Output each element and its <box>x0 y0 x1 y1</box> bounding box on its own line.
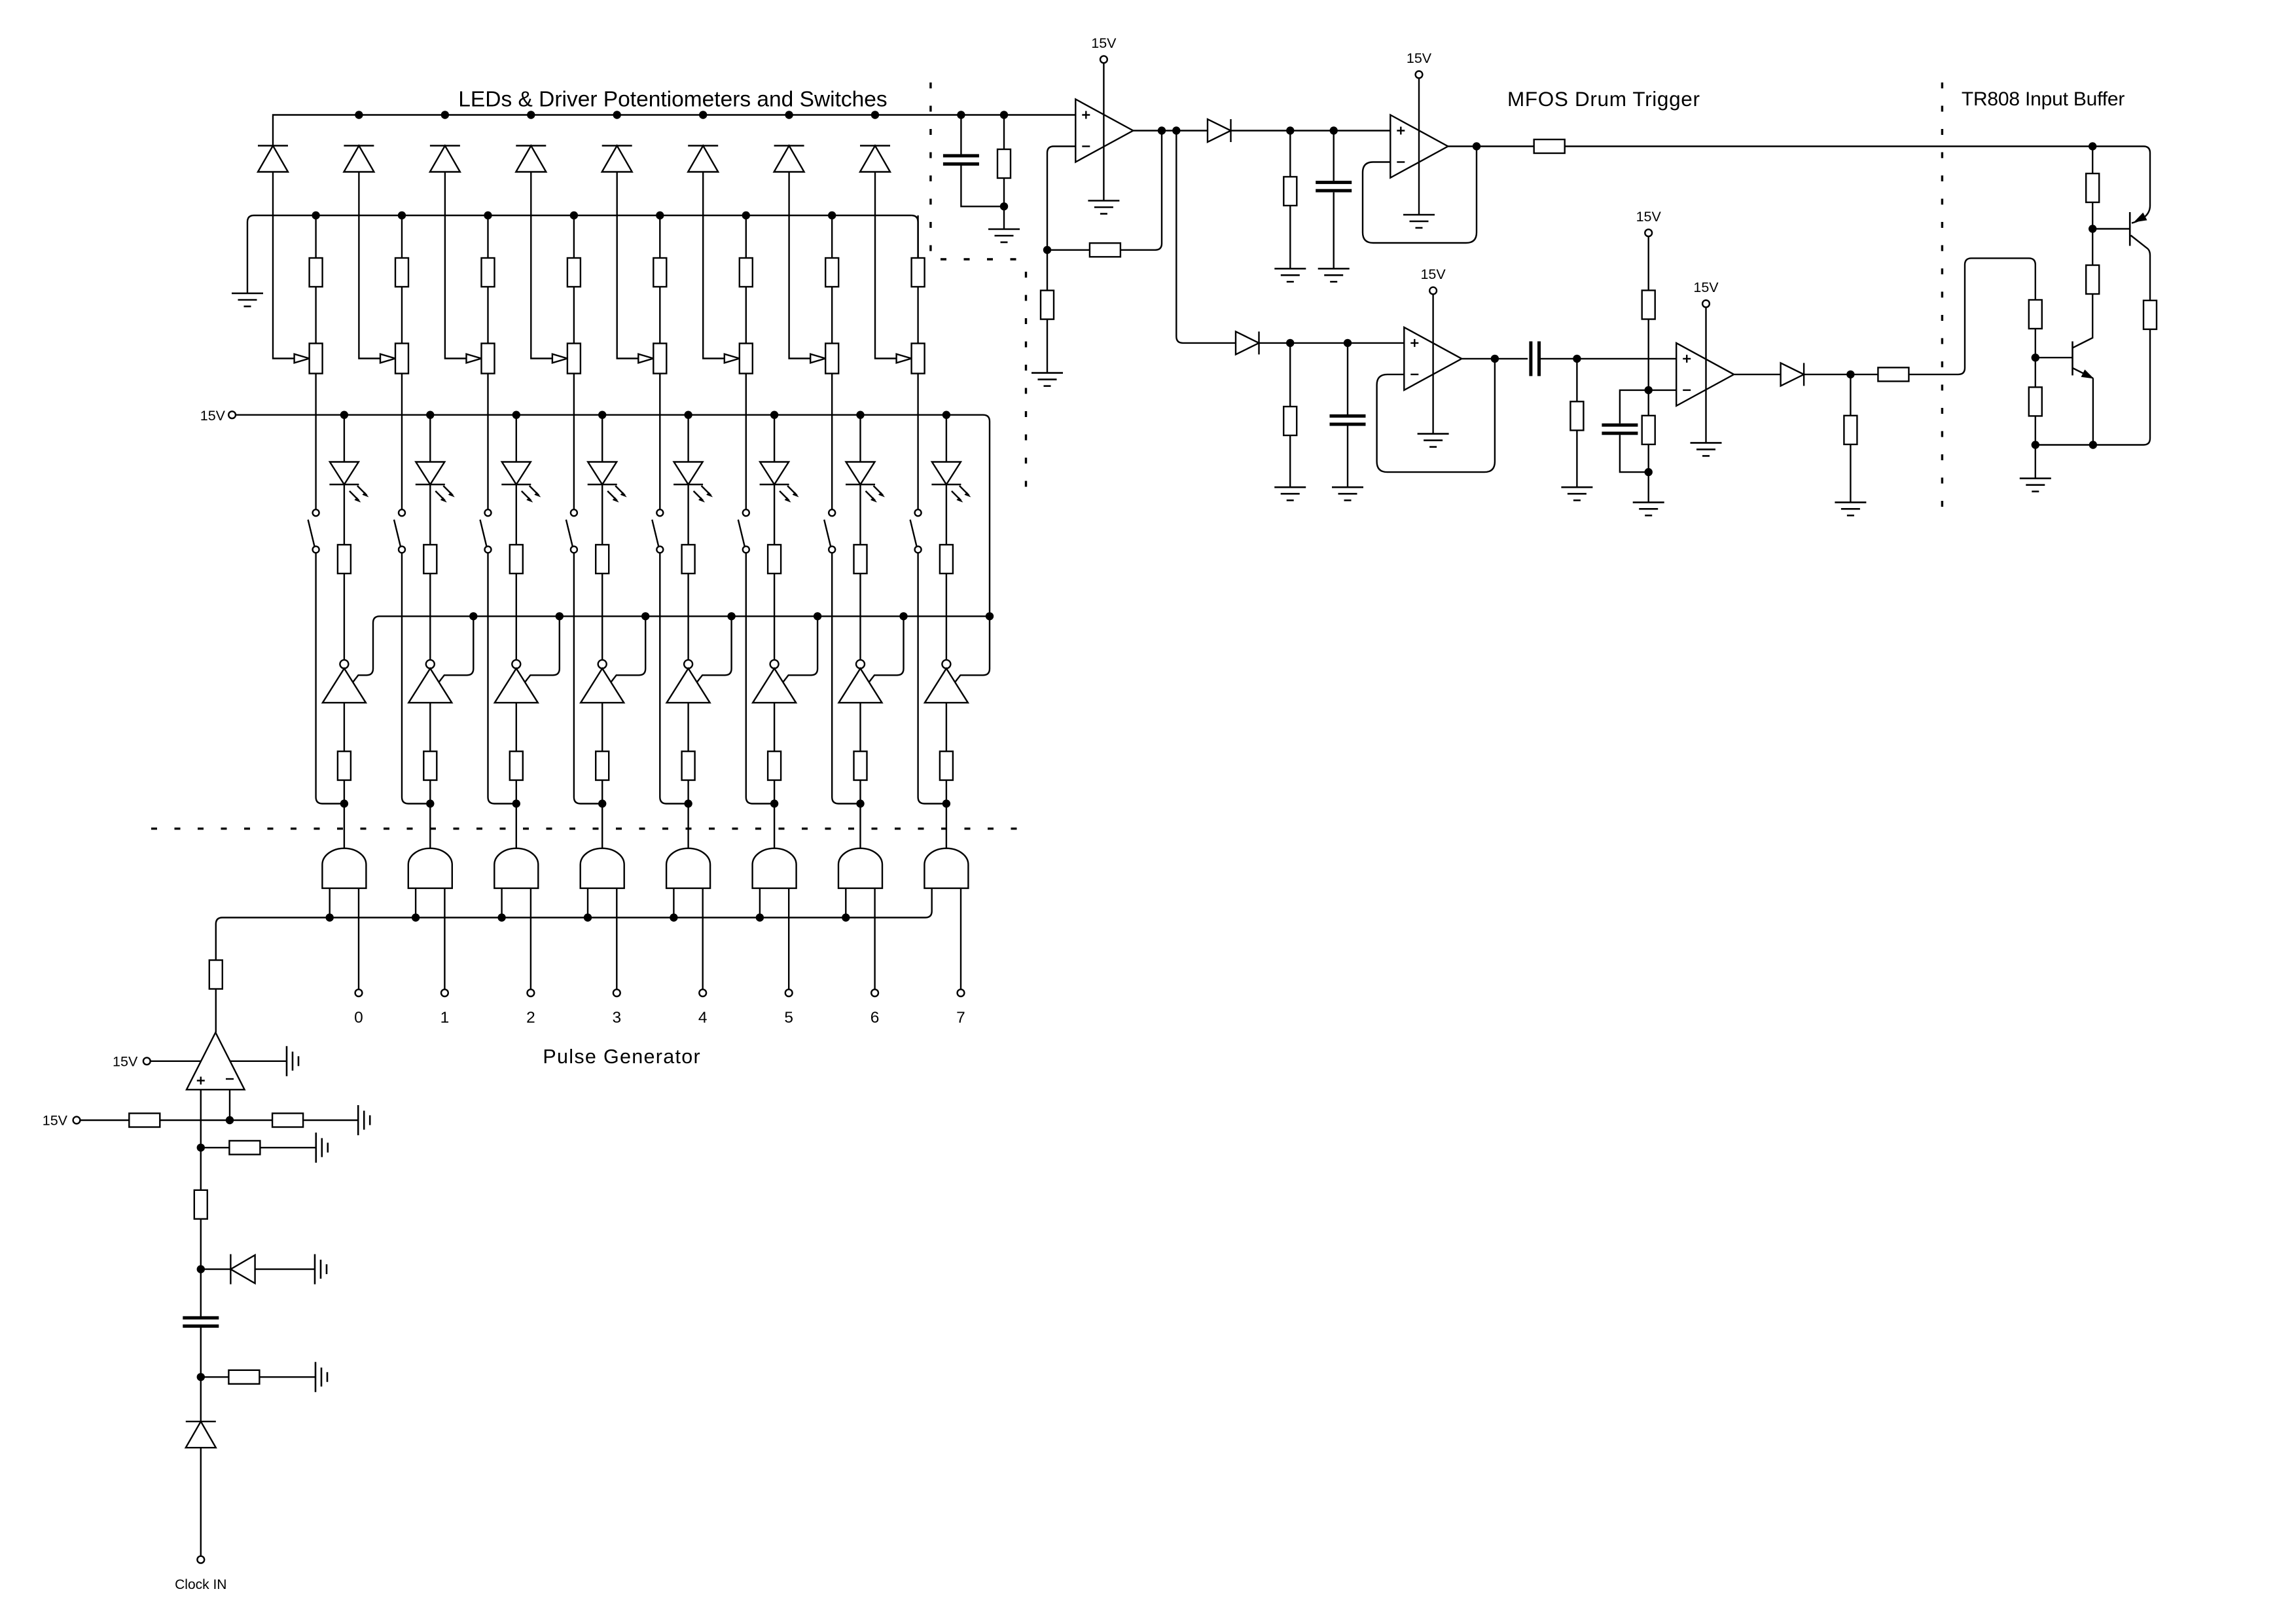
resistor R16 <box>1289 343 1291 407</box>
ground: R14 <box>1274 268 1306 282</box>
wire: diode D7 anode down to pot wiper <box>789 172 811 359</box>
terminal: step input 3 <box>613 989 620 996</box>
terminal: 15V threshold <box>73 1117 81 1124</box>
diode D1 <box>258 146 288 172</box>
terminal: 15V U3 <box>1416 71 1423 79</box>
svg-text:15V: 15V <box>43 1113 68 1129</box>
pot wiper arrow col 4 <box>552 354 567 363</box>
resistor R8c (inverter input) <box>946 702 947 751</box>
terminal: step input 0 <box>355 989 363 996</box>
ground: R16 <box>1274 487 1306 500</box>
wire: pot P1 bottom to switch <box>315 374 316 510</box>
node: column 1 drive node <box>340 799 348 807</box>
wire: switch S1 to AND gate output node <box>316 553 344 803</box>
wire: pot P7 bottom to switch <box>831 374 833 510</box>
wire: U2 output <box>1133 130 1208 131</box>
wire: drive node to AND gate G4 <box>601 804 603 848</box>
wire: diode D2 anode down to pot wiper <box>359 172 380 359</box>
node: bus2 junction col 2 <box>398 211 406 219</box>
node: column 4 drive node <box>598 799 606 807</box>
wire: second bus (pot tops) <box>254 215 912 216</box>
wire: gate G6 left input <box>759 888 761 918</box>
node: U4 output node <box>1491 355 1499 363</box>
wire: bus2 right end into column 8 resistor <box>912 215 918 258</box>
switch S2 <box>394 509 405 553</box>
node: 15V bus junction col 8 <box>942 411 950 419</box>
ground: U4 supply <box>1418 434 1449 447</box>
svg-text:6: 6 <box>870 1009 880 1027</box>
svg-text:Pulse Generator: Pulse Generator <box>543 1046 701 1068</box>
wire: 15V bus <box>236 414 983 416</box>
wire: diode D6 anode down to pot wiper <box>703 172 725 359</box>
switch S8 <box>910 509 922 553</box>
wire: lower branch drop <box>1176 131 1236 343</box>
resistor R1b (LED to inverter) <box>344 484 345 545</box>
node: pulse bus junction gate 6 <box>756 913 764 921</box>
AND gate G2 <box>408 848 452 888</box>
ground: emitter bus <box>2035 445 2036 479</box>
LED L7 <box>859 415 861 462</box>
pot wiper arrow col 6 <box>725 354 740 363</box>
resistor R19 (divider bottom) <box>1647 390 1649 416</box>
wire: pot P2 bottom to switch <box>401 374 403 510</box>
op-amp U4 (comparator 2) <box>1404 327 1462 390</box>
ground: R35 <box>315 1362 327 1392</box>
svg-text:0: 0 <box>354 1009 363 1027</box>
inverter buffer U8 <box>925 660 968 702</box>
ground: C2 <box>1318 268 1350 282</box>
pot wiper arrow col 5 <box>638 354 653 363</box>
node: pulse bus junction gate 3 <box>497 913 505 921</box>
terminal: 15V op-amp supply <box>143 1057 151 1065</box>
potentiometer P8 <box>912 344 925 374</box>
node: Q1 base chain top <box>2089 142 2096 150</box>
wire: U5 output <box>1734 374 1781 375</box>
svg-text:5: 5 <box>784 1009 793 1027</box>
node: Q2 base node <box>2032 354 2039 361</box>
wire: rail drop into inverter 4 <box>611 616 646 683</box>
resistor R20 (load) <box>1850 374 1851 416</box>
wire: gate G2 left input <box>415 888 416 918</box>
capacitor C3 <box>1347 343 1348 414</box>
AND gate G7 <box>838 848 882 888</box>
node: column 5 drive node <box>684 799 692 807</box>
resistor R4b (LED to inverter) <box>601 484 603 545</box>
resistor R7b (LED to inverter) <box>859 484 861 545</box>
node: top bus junction col 6 <box>699 111 707 119</box>
terminal: 15V U2 <box>1100 56 1107 63</box>
node: - input node <box>226 1116 234 1124</box>
node: top bus junction col 4 <box>527 111 535 119</box>
wire: gate G2 right input to terminal 1 <box>444 888 445 990</box>
node: rail junction col 7 <box>899 612 907 620</box>
node: timing node B <box>197 1373 205 1381</box>
terminal: step input 2 <box>528 989 535 996</box>
node: output node <box>1846 371 1854 378</box>
node: + input node <box>197 1144 205 1152</box>
pot wiper arrow col 3 <box>467 354 482 363</box>
node: U2 feedback node <box>1043 246 1051 254</box>
svg-text:Clock IN: Clock IN <box>175 1577 226 1592</box>
wire: pot P5 bottom to switch <box>659 374 660 510</box>
wire: gate G8 left input <box>931 888 932 911</box>
resistor R6a (bus2 to pot) <box>745 215 747 258</box>
node: top bus junction col 2 <box>355 111 363 119</box>
resistor R5c (inverter input) <box>687 702 689 751</box>
ground: filter <box>988 229 1020 242</box>
wire: gate G5 left input <box>673 888 674 918</box>
inverter buffer U7 <box>839 660 882 702</box>
AND gate G3 <box>494 848 538 888</box>
wire: drive node to AND gate G5 <box>687 804 689 848</box>
node: detector node 1 <box>1286 126 1294 134</box>
resistor R22 (base top) <box>2092 147 2093 174</box>
node: U5 - input node <box>1645 386 1653 394</box>
node: timing node A <box>197 1265 205 1273</box>
resistor R7c (inverter input) <box>859 702 861 751</box>
ground: R17 <box>1561 487 1592 500</box>
terminal: 15V U5 <box>1702 301 1710 308</box>
diode D12 (lower branch) <box>1236 331 1259 354</box>
wire: switch S4 to AND gate output node <box>574 553 602 803</box>
node: pulse shaping node <box>1573 355 1581 363</box>
diode D10 (clock input, pointing up) <box>200 1377 202 1421</box>
AND gate G5 <box>666 848 710 888</box>
wire: gate G4 left input <box>587 888 588 918</box>
wire: U4 feedback loop <box>1377 359 1495 472</box>
resistor R1a (bus2 to pot) <box>315 215 316 258</box>
LED L2 <box>429 415 431 462</box>
resistor R2c (inverter input) <box>429 702 431 751</box>
node: pulse bus junction gate 1 <box>326 913 334 921</box>
wire: gate G3 left input <box>501 888 502 918</box>
svg-text:15V: 15V <box>1636 209 1662 225</box>
ground: R33 <box>316 1133 328 1163</box>
node: top bus junction col 7 <box>785 111 793 119</box>
resistor R4c (inverter input) <box>601 702 603 751</box>
potentiometer P2 <box>395 344 408 374</box>
node: 15V bus junction col 2 <box>426 411 434 419</box>
resistor R8b (LED to inverter) <box>946 484 947 545</box>
ground: D9 <box>315 1254 327 1285</box>
pot wiper arrow col 7 <box>810 354 825 363</box>
LED L8 <box>946 415 947 462</box>
dashed boundary: LED section right (lower) <box>1025 272 1027 490</box>
svg-text:4: 4 <box>698 1009 708 1027</box>
resistor R35 (node B to ground) <box>201 1376 229 1377</box>
node: 15V bus junction col 1 <box>340 411 348 419</box>
AND gate G6 <box>753 848 797 888</box>
op-amp U3 (comparator 1) <box>1390 115 1448 178</box>
wire: rail drop into inverter 2 <box>439 616 474 683</box>
wire: switch S6 to AND gate output node <box>746 553 774 803</box>
LED L1 <box>344 415 345 462</box>
node: bus2 junction col 6 <box>742 211 750 219</box>
wire: gate G1 left input <box>329 888 331 918</box>
wire: U4 output to cap <box>1462 358 1528 359</box>
ground: R20 <box>1835 502 1866 515</box>
node: rail junction col 8 <box>986 612 994 620</box>
AND gate G4 <box>581 848 624 888</box>
capacitor C5 (parallel) <box>1620 390 1649 424</box>
resistor R2a (bus2 to pot) <box>401 215 403 258</box>
wire: switch S5 to AND gate output node <box>660 553 688 803</box>
wire: switch S2 to AND gate output node <box>402 553 430 803</box>
svg-text:15V: 15V <box>1091 35 1117 51</box>
wire: pot P6 bottom to switch <box>745 374 747 510</box>
terminal: 15V divider <box>1645 229 1652 236</box>
node: bus2 junction col 1 <box>312 211 319 219</box>
node: 15V bus junction col 6 <box>770 411 778 419</box>
wire: diode D4 anode down to pot wiper <box>531 172 552 359</box>
node: top bus junction col 5 <box>613 111 621 119</box>
node: rail junction col 4 <box>641 612 649 620</box>
inverter buffer U4 <box>581 660 624 702</box>
switch S5 <box>652 509 663 553</box>
resistor R34 (timing chain) <box>200 1148 202 1190</box>
dashed boundary: LED section right (upper) <box>929 82 931 255</box>
diode D13 (output) <box>1781 363 1804 386</box>
terminal: step input 5 <box>785 989 793 996</box>
node: emitter bus left <box>2032 441 2039 448</box>
wire: gate G6 right input to terminal 5 <box>788 888 789 990</box>
wire: gate G7 left input <box>845 888 846 918</box>
diode D11 (top branch) <box>1208 119 1231 142</box>
resistor R5a (bus2 to pot) <box>659 215 660 258</box>
wire: diode D1 anode down to pot wiper <box>273 172 295 359</box>
svg-text:15V: 15V <box>113 1053 138 1069</box>
wire: gate G1 right input to terminal 0 <box>358 888 359 990</box>
node: U3 output node <box>1473 142 1480 150</box>
capacitor C1 (input filter) <box>960 115 961 155</box>
wire: pot P4 bottom to switch <box>573 374 575 510</box>
node: 15V bus junction col 4 <box>598 411 606 419</box>
node: 15V bus junction col 7 <box>856 411 864 419</box>
resistor R3a (bus2 to pot) <box>487 215 488 258</box>
diode D9 (to ground, pointing left) <box>201 1268 231 1269</box>
wire: - input down to node <box>229 1089 230 1120</box>
node: column 2 drive node <box>426 799 434 807</box>
resistor R7a (bus2 to pot) <box>831 215 833 258</box>
terminal: step input 7 <box>958 989 965 996</box>
potentiometer P3 <box>482 344 495 374</box>
wire: 15V bus right end down to inverter rail <box>954 415 990 683</box>
wire: gate G4 right input to terminal 3 <box>616 888 617 990</box>
LED L3 <box>516 415 517 462</box>
ground: R32 <box>358 1105 370 1135</box>
resistor R33 (+ node to ground) <box>201 1147 230 1148</box>
resistor R17 <box>1576 359 1577 401</box>
diode D2 <box>344 146 374 172</box>
node: pulse bus junction gate 2 <box>412 913 420 921</box>
transistor Q2 (NPN) <box>2036 357 2073 358</box>
wire: rail drop into inverter 6 <box>783 616 818 683</box>
capacitor C10 (timing) <box>200 1269 202 1317</box>
wire: rail drop into inverter 7 <box>869 616 904 683</box>
resistor R11 (input filter) <box>1003 115 1005 149</box>
resistor R15 (trigger out top) <box>1534 139 1565 153</box>
potentiometer P5 <box>653 344 666 374</box>
wire: U3 supply to ground <box>1418 78 1420 215</box>
wire: U3 output <box>1448 145 1534 147</box>
wire: drive node to AND gate G1 <box>344 804 345 848</box>
potentiometer P1 <box>310 344 323 374</box>
wire: rail drop into inverter 5 <box>696 616 732 683</box>
svg-text:15V: 15V <box>1407 50 1432 66</box>
inverter buffer U2 <box>408 660 452 702</box>
inverter buffer U1 <box>323 660 366 702</box>
svg-text:MFOS Drum Trigger: MFOS Drum Trigger <box>1507 87 1700 111</box>
wire: + input down chain <box>200 1089 202 1148</box>
wire: switch S8 to AND gate output node <box>918 553 946 803</box>
pot wiper arrow col 2 <box>380 354 395 363</box>
node: divider bottom node <box>1645 468 1653 476</box>
ground: U5 supply <box>1691 443 1722 456</box>
resistor R25 (Q2 base top) <box>2029 300 2042 329</box>
op-amp U2 (buffer) <box>1075 100 1133 162</box>
dashed boundary: LED section step <box>941 258 1022 260</box>
wire: op-amp right to ground <box>230 1061 287 1062</box>
resistor R6c (inverter input) <box>774 702 775 751</box>
node: branch tap <box>1172 126 1180 134</box>
ground: U3 supply <box>1403 215 1435 228</box>
resistor R6b (LED to inverter) <box>774 484 775 545</box>
svg-text:LEDs & Driver Potentiometers a: LEDs & Driver Potentiometers and Switche… <box>458 88 887 112</box>
wire: U2 - input loop <box>1047 147 1075 250</box>
svg-text:15V: 15V <box>200 408 226 424</box>
wire: top trigger into TR808, corner down to Q1 emitter <box>2144 147 2150 206</box>
potentiometer P7 <box>825 344 838 374</box>
transistor Q1 (PNP) <box>2092 228 2130 229</box>
wire: pot P3 bottom to switch <box>487 374 488 510</box>
ground: divider <box>1633 502 1664 515</box>
diode D6 <box>688 146 718 172</box>
resistor R3c (inverter input) <box>516 702 517 751</box>
ground: bus2 left <box>232 293 263 306</box>
resistor R23 (Q1 collector) <box>2144 301 2157 329</box>
pot wiper arrow col 1 <box>295 354 310 363</box>
wire: - node to op-amp U5 <box>1649 390 1677 391</box>
node: bus2 junction col 3 <box>484 211 492 219</box>
LED L5 <box>687 415 689 462</box>
ground: op-amp right <box>287 1046 298 1076</box>
wire: gate G3 right input to terminal 2 <box>530 888 531 990</box>
wire: drive node to AND gate G7 <box>859 804 861 848</box>
wire: gate G5 right input to terminal 4 <box>702 888 703 990</box>
node: 15V bus junction col 5 <box>684 411 692 419</box>
node: detector node 4 <box>1344 339 1352 347</box>
wire: pulse bus to gate left inputs <box>216 911 932 924</box>
diode D8 <box>860 146 890 172</box>
node: bus2 junction col 4 <box>570 211 578 219</box>
AND gate G8 <box>924 848 968 888</box>
wire: rail left end into inverter 1 <box>352 616 380 683</box>
capacitor C2 (detector hold) <box>1333 131 1334 181</box>
svg-text:15V: 15V <box>1693 280 1719 295</box>
node: column 6 drive node <box>770 799 778 807</box>
wire: gate G8 right input to terminal 7 <box>960 888 961 990</box>
wire: U3 feedback loop <box>1363 147 1477 244</box>
node: pulse bus junction gate 7 <box>842 913 850 921</box>
terminal: 15V U4 <box>1429 287 1437 295</box>
wire: switch S7 to AND gate output node <box>832 553 860 803</box>
resistor R32 (node to ground) <box>272 1114 303 1127</box>
wire: drive node to AND gate G6 <box>774 804 775 848</box>
wire: diode D5 anode down to pot wiper <box>617 172 639 359</box>
wire: pot P8 bottom to switch <box>917 374 918 510</box>
wire: diode D8 anode down to pot wiper <box>875 172 897 359</box>
inverter buffer U5 <box>667 660 710 702</box>
svg-text:7: 7 <box>956 1009 965 1027</box>
node: column 8 drive node <box>942 799 950 807</box>
resistor R12 (U2 feedback) <box>1047 249 1090 251</box>
switch S6 <box>738 509 749 553</box>
wire: switch S3 to AND gate output node <box>488 553 516 803</box>
wire: drive node to AND gate G2 <box>429 804 431 848</box>
switch S3 <box>480 509 492 553</box>
wire: top bus to op-amp U1 + input <box>273 115 1075 146</box>
AND gate G1 <box>322 848 366 888</box>
resistor R26 (Q2 base lower) <box>2029 387 2042 416</box>
switch S7 <box>824 509 835 553</box>
resistor R21 (trigger out bottom) <box>1878 367 1909 381</box>
ground: R13 <box>1031 373 1063 386</box>
wire: gate G7 right input to terminal 6 <box>874 888 875 990</box>
capacitor C4 (coupling) <box>1529 341 1541 376</box>
resistor R14 (detector bleed) <box>1289 131 1291 177</box>
node: rail junction col 5 <box>727 612 735 620</box>
node: column 3 drive node <box>512 799 520 807</box>
LED L6 <box>774 415 775 462</box>
resistor R18 (divider top) <box>1647 236 1649 290</box>
node: detector node 3 <box>1286 339 1294 347</box>
diode D7 <box>774 146 804 172</box>
wire: U2 supply through to ground <box>1103 63 1104 200</box>
wire: U5 supply to ground <box>1705 307 1706 443</box>
LED L4 <box>601 415 603 462</box>
node: rail junction col 3 <box>556 612 564 620</box>
node: 15V bus junction col 3 <box>512 411 520 419</box>
wire: 15V into op-amp left <box>151 1061 201 1062</box>
resistor R4a (bus2 to pot) <box>573 215 575 258</box>
diode D3 <box>430 146 460 172</box>
terminal: step input 6 <box>871 989 878 996</box>
node: Q1 base node <box>2089 225 2096 232</box>
switch S1 <box>308 509 319 553</box>
wire: drive node to AND gate G8 <box>946 804 947 848</box>
wire: rail drop into inverter 3 <box>524 616 560 683</box>
inverter buffer U6 <box>753 660 796 702</box>
ground: U2 supply <box>1088 201 1119 214</box>
inverter buffer U3 <box>495 660 538 702</box>
node: feedback tap <box>1158 126 1166 134</box>
node: bus2 junction col 5 <box>656 211 664 219</box>
node: column 7 drive node <box>856 799 864 807</box>
resistor R1c (inverter input) <box>344 702 345 751</box>
node: filter junction <box>1000 202 1008 210</box>
pot wiper arrow col 8 <box>897 354 912 363</box>
diode D4 <box>516 146 546 172</box>
svg-text:15V: 15V <box>1420 266 1446 282</box>
svg-text:3: 3 <box>612 1009 621 1027</box>
node: top bus junction col 3 <box>441 111 449 119</box>
ground: C3 <box>1332 487 1363 500</box>
op-amp U5 (output comparator) <box>1676 343 1734 406</box>
wire: diode D3 anode down to pot wiper <box>445 172 467 359</box>
resistor R24 (Q1 base lower) <box>2092 229 2093 266</box>
node: pulse bus junction gate 4 <box>584 913 592 921</box>
switch S4 <box>566 509 577 553</box>
